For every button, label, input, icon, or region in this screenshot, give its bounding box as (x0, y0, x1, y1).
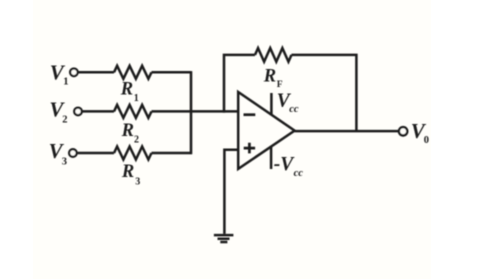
wire V3 terminal to R3 (77, 152, 114, 155)
op-amp U1 triangle (238, 92, 294, 169)
wire V2 terminal to R2 (82, 110, 114, 113)
wire V1 terminal to R1 (78, 71, 114, 74)
svg-text:-V: -V (274, 154, 295, 175)
-Vcc supply pin stub (270, 147, 273, 169)
svg-text:0: 0 (424, 135, 429, 146)
svg-text:1: 1 (63, 77, 68, 88)
+Vcc supply pin stub (270, 93, 273, 115)
wire feedback top and right drop to output (292, 55, 357, 131)
resistor R3 (114, 147, 152, 160)
svg-text:1: 1 (134, 93, 139, 104)
svg-text:3: 3 (135, 176, 140, 187)
node V3 input terminal (69, 149, 77, 157)
svg-text:3: 3 (62, 156, 67, 167)
resistor R1 (114, 66, 152, 79)
resistor R2 (114, 105, 152, 118)
svg-text:R: R (263, 66, 276, 86)
node V1 input terminal (70, 69, 78, 77)
op-amp non-inverting input plus symbol (244, 143, 255, 154)
wire R1 to summing bus (152, 71, 192, 74)
svg-text:R: R (121, 162, 134, 182)
svg-text:cc: cc (289, 104, 299, 115)
wire R3 to summing bus (152, 152, 192, 155)
wire R2 to op-amp inverting input (152, 110, 239, 113)
node V0 output terminal (399, 127, 407, 135)
svg-text:R: R (120, 80, 133, 100)
op-amp inverting input minus symbol (244, 113, 256, 116)
wire feedback left riser (224, 55, 255, 113)
wire summing bus vertical (190, 71, 193, 154)
node V2 input terminal (74, 108, 82, 116)
svg-text:R: R (121, 121, 134, 141)
wire non-inverting input to ground (224, 150, 238, 234)
ground (214, 235, 234, 242)
resistor RF (255, 48, 292, 62)
svg-text:F: F (277, 80, 283, 90)
wire op-amp output (295, 130, 399, 133)
svg-text:2: 2 (134, 134, 139, 145)
svg-text:2: 2 (62, 114, 67, 125)
svg-text:cc: cc (294, 168, 304, 179)
